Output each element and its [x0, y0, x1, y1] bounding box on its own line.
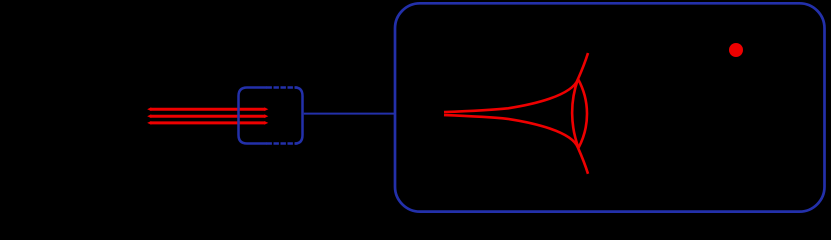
small box dashed bottom edge — [267, 142, 298, 145]
small box dashed top edge — [267, 86, 298, 89]
connector wire — [304, 113, 395, 115]
small box (lens/detector) solid part — [239, 88, 268, 144]
wavefront lens left arc — [572, 79, 578, 148]
small box right corners and right edge — [295, 88, 303, 144]
wavefront lens right arc — [578, 79, 587, 148]
beam arrow 1 (top red line) — [147, 107, 268, 111]
beam arrow 3 (bottom red line) — [147, 121, 268, 125]
big enclosure rounded rectangle — [395, 3, 825, 211]
caustic top branch — [444, 53, 588, 112]
observer dot — [729, 43, 743, 57]
caustic bottom branch — [444, 115, 588, 174]
beam arrow 2 (middle red line) — [147, 114, 268, 118]
